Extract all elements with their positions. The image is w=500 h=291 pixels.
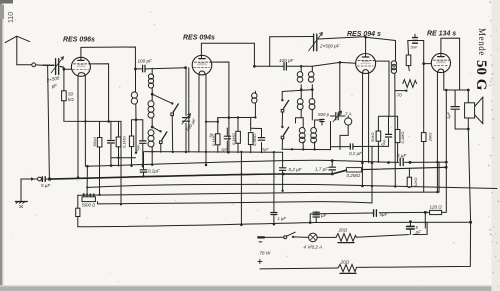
- drop rail2 to rail4: [282, 174, 284, 191]
- potentiometer 5000ohm: [82, 197, 95, 202]
- svg-text:110: 110: [8, 12, 15, 23]
- cathode bypass cap 1uF: [136, 120, 143, 167]
- mains switch: [264, 232, 309, 237]
- V4 anode top to speaker: [441, 38, 468, 103]
- cap between: [372, 116, 389, 203]
- resistor under pot on rail4 left end: [77, 195, 79, 227]
- wire antenna to input jack: [17, 64, 43, 66]
- coil pair P2: [303, 118, 314, 149]
- svg-text:70: 70: [397, 93, 403, 98]
- coil D: [148, 130, 154, 136]
- svg-text:kΩ: kΩ: [68, 97, 74, 102]
- local rail y149: [282, 148, 330, 150]
- 1uF cap vertical: [315, 212, 317, 223]
- cap cluster-e: [261, 129, 263, 153]
- resistor 20ohm zigzag lower: [338, 264, 357, 271]
- svg-text:RES 094s: RES 094s: [183, 35, 215, 42]
- var cap gang2: [314, 34, 317, 51]
- wire W5 heater: [310, 212, 425, 222]
- coil A antenna coil: [135, 69, 137, 92]
- svg-text:500 p: 500 p: [318, 112, 330, 117]
- switch S2: [152, 127, 160, 131]
- svg-text:20Ω: 20Ω: [340, 260, 350, 265]
- node coil tap: [151, 93, 154, 96]
- coil C: [148, 101, 154, 107]
- rail1 grid bus: [86, 160, 446, 166]
- tube V2 RES094s: [192, 55, 212, 75]
- V3 anode lead: [365, 37, 367, 57]
- second gang wire: [188, 68, 190, 152]
- tube V4 RE134s: [431, 53, 450, 72]
- grid resistor 2M: [421, 133, 426, 142]
- heater drop 1: [240, 152, 242, 225]
- 12k resistor: [407, 177, 411, 187]
- scan edge bottom strip: [0, 287, 500, 291]
- coil pair P1b: [297, 99, 303, 105]
- cap 0.2uF bridging: [143, 152, 145, 177]
- resistor 0.1M: [119, 121, 122, 204]
- resistor 50k: [62, 91, 67, 101]
- resistor branch left of coilA foot: [132, 120, 137, 166]
- phone jack + 5uF input cap: [21, 178, 37, 180]
- screen coil: [254, 91, 256, 93]
- plus mark: [258, 259, 262, 263]
- svg-text:100 pF: 100 pF: [279, 58, 294, 63]
- rail5: [98, 202, 372, 204]
- bridging caps 0.2uF / 1.7uF: [282, 161, 284, 174]
- trimmer cap 500pF: [185, 68, 187, 153]
- grid resistor 70 zigzag: [403, 80, 417, 88]
- resistor 50k out: [376, 131, 381, 141]
- svg-text:4 µF: 4 µF: [397, 153, 407, 158]
- antenna: [5, 36, 29, 65]
- svg-text:Mende: Mende: [477, 28, 487, 56]
- dial lamp 4V 0.2A: [309, 233, 318, 242]
- switch S1: [152, 94, 172, 103]
- speaker line down: [468, 118, 470, 222]
- 4uF cap inline: [400, 158, 403, 165]
- node g1: [63, 68, 66, 71]
- svg-text:100 pF: 100 pF: [138, 59, 153, 64]
- drop to rail1: [282, 152, 284, 161]
- coil pair P1: [301, 66, 312, 89]
- output transformer bracket: [378, 116, 397, 162]
- V4 cathode legs: [437, 73, 443, 193]
- wire lower cluster: [111, 158, 136, 166]
- capacitor coupling: [110, 121, 112, 166]
- svg-text:5µF: 5µF: [262, 147, 269, 151]
- grid coil small: [151, 68, 153, 75]
- svg-text:20Ω: 20Ω: [338, 228, 348, 233]
- grid cap 5nF loop: [408, 40, 424, 42]
- wire cluster top rail y121.4: [85, 120, 121, 122]
- svg-text:7 A: 7 A: [345, 112, 352, 117]
- IF coil: [366, 37, 396, 61]
- rail4: [78, 192, 439, 195]
- svg-text:0,2 µF: 0,2 µF: [289, 167, 303, 172]
- coupling cap 100pF: [135, 68, 185, 69]
- rail3: [88, 184, 497, 188]
- ground: [20, 179, 22, 201]
- V2 cathode legs: [199, 75, 206, 165]
- fuse 7A: [347, 116, 349, 118]
- padder cap 500pF: [331, 116, 335, 150]
- resistor 20ohm zigzag upper: [336, 234, 356, 242]
- resistor 0.2M inline: [347, 168, 362, 172]
- svg-text:4 V/0,2 A: 4 V/0,2 A: [304, 245, 323, 250]
- V3 cathode legs: [362, 73, 368, 186]
- svg-text:RES 094 s: RES 094 s: [347, 31, 381, 38]
- 120 ohm resistor: [424, 211, 427, 214]
- svg-text:1µF: 1µF: [221, 148, 228, 152]
- svg-text:80kΩ: 80kΩ: [92, 137, 97, 147]
- resistor 80k: [99, 121, 101, 194]
- svg-text:12kΩ: 12kΩ: [413, 178, 418, 188]
- wire to V4 grid: [424, 63, 432, 65]
- svg-text:50kΩ: 50kΩ: [370, 133, 375, 143]
- speaker: [465, 103, 475, 118]
- switch S3: [281, 99, 283, 101]
- heater drop 2 with cap: [273, 152, 275, 224]
- 5uF cap inline horizontal: [374, 210, 377, 217]
- svg-text:120 Ω: 120 Ω: [430, 205, 443, 210]
- wire below P1: [282, 90, 312, 100]
- variable capacitor C-ant 2x500pF: [43, 59, 64, 75]
- resistor cluster-c: [236, 131, 241, 143]
- svg-text:50 G: 50 G: [473, 60, 489, 91]
- wire node down to HT junction: [48, 65, 50, 179]
- mains terminal: [258, 236, 264, 238]
- cap 0.2uF in wire: [331, 146, 373, 149]
- svg-text:5 µF: 5 µF: [41, 183, 51, 188]
- svg-text:µF: µF: [321, 213, 327, 218]
- svg-text:5000 Ω: 5000 Ω: [82, 203, 96, 208]
- bottom elko 5uF left: [409, 222, 410, 235]
- corner mark top left: [0, 0, 13, 4]
- rail6: [78, 222, 471, 227]
- svg-text:0,1MΩ: 0,1MΩ: [400, 132, 405, 144]
- svg-text:0,1MΩ: 0,1MΩ: [231, 133, 236, 145]
- svg-text:2µF: 2µF: [446, 111, 451, 120]
- wire 50k bottom to cathode line: [64, 101, 86, 122]
- V1 grid cap wire to right: [89, 64, 108, 122]
- svg-text:0,2 µF: 0,2 µF: [349, 151, 362, 156]
- grid leak resistor: [406, 55, 411, 66]
- svg-text:5µF: 5µF: [380, 212, 388, 217]
- switch S4: [281, 126, 283, 128]
- tube smudge marks: [76, 61, 446, 66]
- svg-text:50: 50: [68, 92, 74, 97]
- svg-text:0,5MΩ: 0,5MΩ: [252, 134, 257, 146]
- resistor cluster-a: [216, 134, 220, 145]
- svg-text:0,2µF: 0,2µF: [148, 169, 160, 174]
- tube V1 RES096s: [71, 57, 90, 76]
- svg-text:0,1MΩ: 0,1MΩ: [121, 136, 126, 148]
- cap cluster-b: [226, 128, 228, 152]
- tap wire to 70ohm: [395, 90, 406, 92]
- V2 anode top wire: [201, 43, 254, 66]
- node: [151, 126, 154, 129]
- svg-text:1 µF: 1 µF: [278, 216, 287, 221]
- V3 grid to IF coil: [376, 61, 389, 116]
- speaker cap 2uF: [467, 89, 470, 92]
- svg-text:µF: µF: [416, 230, 422, 235]
- svg-text:2×500 pF: 2×500 pF: [319, 44, 341, 49]
- wire cluster top: [206, 118, 229, 122]
- wire top bus V1 anode: [81, 47, 135, 69]
- tube V3 RES094s: [356, 54, 376, 74]
- resistor cluster-d: [248, 133, 253, 145]
- wire node down to resistor: [63, 69, 65, 91]
- svg-text:5nF: 5nF: [411, 45, 418, 50]
- wire to tube V1 grid: [64, 68, 72, 70]
- svg-text:RE 134 s: RE 134 s: [427, 31, 456, 38]
- svg-text:2MΩ: 2MΩ: [428, 133, 433, 143]
- elko 5uF: [409, 222, 411, 235]
- lower mains wire: [260, 222, 471, 269]
- local rail y152: [145, 151, 283, 154]
- resistor 0.5M out: [395, 130, 400, 143]
- svg-text:1,7 µF: 1,7 µF: [315, 166, 329, 171]
- rail2 thick HT: [50, 170, 347, 179]
- V2 grid exit right: [211, 62, 229, 152]
- coupling cap 100pF stage2: [254, 62, 355, 66]
- svg-text:0,2MΩ: 0,2MΩ: [347, 173, 361, 178]
- antenna jack: [32, 63, 36, 67]
- scan edge left strip: [0, 0, 2, 291]
- wire screen row: [229, 117, 256, 131]
- V1 cathode legs: [78, 76, 85, 177]
- left cluster: vertical wires: [217, 118, 219, 153]
- svg-text:78 W: 78 W: [260, 251, 271, 256]
- node: [107, 120, 110, 123]
- svg-text:RES 096s: RES 096s: [63, 37, 95, 44]
- osc top line: [270, 37, 313, 67]
